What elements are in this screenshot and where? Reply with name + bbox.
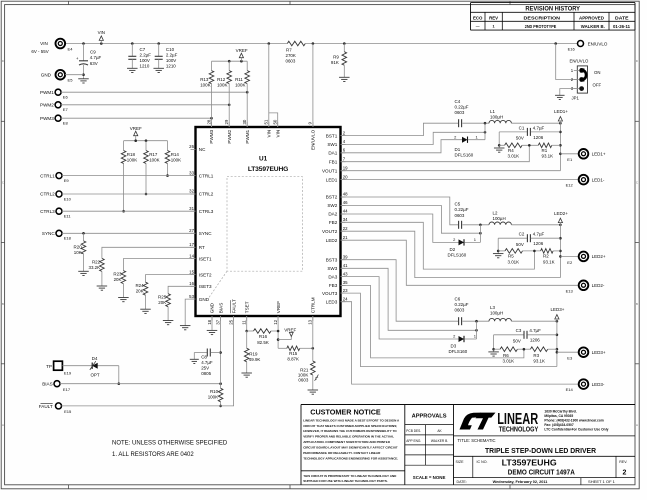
svg-text:1: 1 [493,25,495,29]
svg-text:REV: REV [489,15,499,20]
svg-text:20K: 20K [158,300,166,305]
svg-text:LED1-: LED1- [592,177,605,182]
svg-text:R25: R25 [158,295,167,300]
svg-text:29: 29 [224,119,229,124]
svg-text:TP: TP [46,364,52,369]
svg-text:D2: D2 [450,247,456,252]
svg-text:LTC Confidential-For Customer: LTC Confidential-For Customer Use Only [544,428,608,432]
svg-text:C3: C3 [516,328,522,333]
svg-text:EN/UVLO: EN/UVLO [588,41,608,46]
svg-text:C6: C6 [455,296,461,301]
svg-text:Fax: (408)434-0507: Fax: (408)434-0507 [544,423,573,427]
svg-text:3.01K: 3.01K [503,359,515,364]
svg-text:R20: R20 [74,245,83,250]
svg-text:100µH: 100µH [493,216,506,221]
svg-text:R4: R4 [508,148,514,153]
svg-text:11: 11 [242,320,247,325]
svg-text:10K: 10K [74,250,82,255]
svg-text:CTRL1: CTRL1 [199,173,214,178]
svg-text:R16: R16 [259,334,268,339]
svg-text:BIAS: BIAS [42,381,52,386]
svg-text:14: 14 [189,253,194,258]
svg-text:ISET3: ISET3 [199,284,212,289]
svg-text:4.7µF: 4.7µF [533,232,545,237]
svg-text:LT3597EUHG: LT3597EUHG [502,458,557,467]
svg-text:E7: E7 [63,107,69,112]
svg-text:E14: E14 [566,387,574,392]
svg-text:D1: D1 [455,147,461,152]
svg-text:R15: R15 [289,351,298,356]
svg-text:E15: E15 [64,409,72,414]
svg-text:THIS CIRCUIT IS PROPRIETARY TO: THIS CIRCUIT IS PROPRIETARY TO LINEAR TE… [303,474,397,478]
svg-text:SW2: SW2 [327,203,337,208]
svg-text:R9: R9 [333,54,339,59]
svg-text:D: D [636,59,638,63]
svg-text:A: A [2,423,4,427]
svg-text:E16: E16 [568,46,576,51]
svg-text:PWM3: PWM3 [209,129,214,143]
svg-text:33: 33 [189,170,194,175]
svg-text:2ND PROTOTYPE: 2ND PROTOTYPE [525,24,557,29]
svg-text:VOUT3: VOUT3 [322,291,338,296]
svg-text:IC NO.: IC NO. [477,460,488,464]
svg-text:CTRLM: CTRLM [311,297,316,313]
svg-text:OPT: OPT [90,373,99,378]
svg-text:VIN: VIN [275,130,280,138]
svg-text:51: 51 [264,119,269,124]
svg-text:1210: 1210 [166,64,176,69]
svg-text:—: — [476,25,480,29]
svg-text:20K: 20K [114,277,122,282]
svg-text:PWM3: PWM3 [40,116,54,121]
svg-text:ISET2: ISET2 [199,272,212,277]
svg-text:E19: E19 [64,370,72,375]
svg-text:30: 30 [242,119,247,124]
svg-text:REV.: REV. [619,460,627,464]
svg-text:SCALE = NONE: SCALE = NONE [413,475,446,480]
svg-text:R12: R12 [217,77,226,82]
svg-text:22: 22 [343,226,348,231]
svg-text:RT: RT [199,245,205,250]
svg-text:DATE:: DATE: [457,480,467,484]
svg-text:ECO: ECO [473,15,483,20]
svg-text:L1: L1 [490,109,495,114]
svg-text:VIN: VIN [98,30,105,35]
svg-text:FB2: FB2 [329,220,338,225]
svg-text:1206: 1206 [530,338,540,343]
svg-text:L2: L2 [493,211,498,216]
svg-text:R6: R6 [503,353,509,358]
svg-text:DA3: DA3 [328,274,337,279]
svg-text:23: 23 [343,288,348,293]
svg-text:35: 35 [343,280,348,285]
svg-text:TECHNOLOGY: TECHNOLOGY [499,425,539,434]
svg-text:13: 13 [308,319,313,324]
svg-text:DESCRIPTION: DESCRIPTION [524,15,561,20]
svg-text:HOWEVER, IT REMAINS THE CUSTOM: HOWEVER, IT REMAINS THE CUSTOMERS RESPON… [303,429,397,433]
svg-text:R7: R7 [286,48,292,53]
svg-text:01-26-11: 01-26-11 [613,24,631,29]
svg-text:3.01K: 3.01K [508,154,520,159]
svg-text:1210: 1210 [140,64,150,69]
svg-text:0.22µF: 0.22µF [455,207,469,212]
svg-text:BST1: BST1 [326,133,338,138]
svg-text:18: 18 [207,319,212,324]
svg-text:C10: C10 [166,47,175,52]
svg-text:0805: 0805 [201,371,211,376]
svg-text:48: 48 [343,192,348,197]
svg-text:PERFORMANCE OR RELIABILITY. C: PERFORMANCE OR RELIABILITY. CONTACT LINE… [303,451,381,455]
svg-text:BST2: BST2 [326,195,338,200]
svg-text:25: 25 [228,319,233,324]
svg-text:B: B [636,302,638,306]
svg-text:24: 24 [343,296,348,301]
svg-text:VREF: VREF [284,327,296,332]
svg-text:NC: NC [199,147,206,152]
svg-text:93.1K: 93.1K [533,359,545,364]
svg-text:LED3+: LED3+ [551,307,565,312]
svg-text:C7: C7 [140,47,146,52]
svg-text:100K: 100K [127,158,137,163]
svg-text:50V: 50V [513,338,521,343]
svg-text:32: 32 [189,189,194,194]
svg-text:B: B [2,302,4,306]
svg-text:LED2+: LED2+ [554,211,568,216]
svg-text:APP ENG.: APP ENG. [406,439,421,443]
svg-text:C5: C5 [455,202,461,207]
svg-text:GND: GND [210,302,215,313]
svg-text:PWM2: PWM2 [40,103,54,108]
svg-text:R22: R22 [92,259,101,264]
svg-text:Wednesday, February 02, 2011: Wednesday, February 02, 2011 [493,480,548,484]
svg-text:LT3597EUHG: LT3597EUHG [248,166,288,173]
svg-text:4.7µF: 4.7µF [201,360,213,365]
svg-text:82.5K: 82.5K [257,340,269,345]
svg-text:E13: E13 [566,288,574,293]
svg-text:43: 43 [343,271,348,276]
svg-text:D4: D4 [92,356,98,361]
svg-text:20: 20 [343,174,348,179]
svg-text:VREF: VREF [276,301,281,313]
svg-text:100µH: 100µH [490,115,503,120]
svg-text:GND: GND [199,297,210,302]
svg-text:21: 21 [343,235,348,240]
svg-text:0.22µF: 0.22µF [455,104,469,109]
svg-text:26: 26 [189,144,194,149]
svg-text:VIN: VIN [267,130,272,138]
svg-text:Milpitas, CA 95035: Milpitas, CA 95035 [544,414,573,418]
svg-text:49.9K: 49.9K [249,357,261,362]
svg-text:LED1+: LED1+ [592,152,606,157]
svg-text:R11: R11 [235,77,243,82]
svg-text:19: 19 [343,165,348,170]
svg-text:39: 39 [343,254,348,259]
svg-text:2: 2 [623,470,627,477]
svg-text:27: 27 [189,228,194,233]
svg-text:33.2K: 33.2K [88,265,100,270]
svg-text:0603: 0603 [455,110,465,115]
svg-text:R2: R2 [543,254,549,259]
svg-text:CTRL3: CTRL3 [40,209,55,214]
svg-text:PCB DES.: PCB DES. [406,429,421,433]
svg-text:EN/UVLO: EN/UVLO [569,59,589,64]
svg-text:DA2: DA2 [328,212,337,217]
svg-text:SW1: SW1 [327,142,337,147]
svg-text:VREF: VREF [130,126,142,131]
svg-text:E3: E3 [567,356,573,361]
svg-text:C8: C8 [201,354,207,359]
svg-text:C2: C2 [519,232,525,237]
svg-text:OFF: OFF [593,83,602,88]
svg-text:53: 53 [189,294,194,299]
svg-text:LINEAR TECHNOLOGY HAS MADE A B: LINEAR TECHNOLOGY HAS MADE A BEST EFFORT… [303,418,400,422]
svg-text:E18: E18 [64,236,72,241]
svg-text:100K: 100K [217,82,227,87]
svg-text:R14: R14 [171,152,180,157]
svg-text:0.22µF: 0.22µF [455,302,469,307]
svg-text:CTRL3: CTRL3 [199,209,214,214]
svg-text:R1: R1 [542,148,548,153]
svg-text:20K: 20K [136,289,144,294]
svg-text:A: A [636,423,638,427]
svg-text:Phone: (408)432-1900 www.li: Phone: (408)432-1900 www.linear.com [544,418,603,422]
svg-text:12: 12 [273,319,278,324]
svg-text:VIN: VIN [40,41,48,46]
svg-text:1206: 1206 [533,135,543,140]
svg-text:100µH: 100µH [490,311,503,316]
svg-text:DA1: DA1 [328,151,337,156]
svg-text:E11: E11 [64,214,72,219]
svg-text:LED1+: LED1+ [554,109,568,114]
svg-text:46: 46 [343,200,348,205]
svg-text:25V: 25V [201,366,209,371]
svg-text:37: 37 [215,319,220,324]
svg-text:NOTE: UNLESS OTHERWISE SPECIFI: NOTE: UNLESS OTHERWISE SPECIFIED [112,441,228,447]
svg-text:D3: D3 [451,343,457,348]
svg-text:VERIFY PROPER AND RELIABLE OPE: VERIFY PROPER AND RELIABLE OPERATION IN … [303,435,394,439]
svg-text:34: 34 [343,217,348,222]
svg-text:100V: 100V [140,58,150,63]
svg-text:DFLS160: DFLS160 [449,349,468,354]
svg-text:50V: 50V [516,242,524,247]
svg-text:270K: 270K [286,53,296,58]
svg-text:50: 50 [273,119,278,124]
svg-text:63V: 63V [90,61,98,66]
svg-text:LED3+: LED3+ [592,350,606,355]
svg-text:FAULT: FAULT [231,299,236,313]
svg-text:SYNC: SYNC [42,231,55,236]
svg-text:DFLS160: DFLS160 [448,252,467,257]
svg-text:SIZE: SIZE [456,460,465,464]
svg-text:31: 31 [189,206,194,211]
svg-text:0603: 0603 [455,308,465,313]
svg-text:E10: E10 [64,196,72,201]
svg-text:100K: 100K [200,82,210,87]
svg-text:R3: R3 [533,353,539,358]
svg-text:PWM1: PWM1 [40,90,54,95]
svg-text:CTRL2: CTRL2 [199,192,214,197]
svg-text:SW3: SW3 [327,266,337,271]
svg-text:4.7µF: 4.7µF [90,55,102,60]
svg-text:C1: C1 [519,125,525,130]
svg-text:15: 15 [189,269,194,274]
svg-text:EN/UVLO: EN/UVLO [311,129,316,150]
svg-text:17: 17 [189,242,194,247]
svg-text:0603: 0603 [455,213,465,218]
svg-text:R17: R17 [149,152,158,157]
svg-text:1206: 1206 [533,241,543,246]
svg-text:E8: E8 [63,121,69,126]
svg-text:TSET: TSET [244,301,249,313]
svg-text:100K: 100K [171,158,181,163]
svg-text:R13: R13 [200,77,209,82]
svg-text:CIRCUIT THAT MEETS CUSTOMER-SU: CIRCUIT THAT MEETS CUSTOMER-SUPPLIED SPE… [303,424,397,428]
svg-text:41: 41 [343,263,348,268]
svg-text:C: C [636,181,638,185]
svg-text:LED2: LED2 [326,238,338,243]
svg-text:E4: E4 [68,47,74,52]
svg-text:R5: R5 [508,254,514,259]
svg-text:FB3: FB3 [329,283,338,288]
svg-text:E12: E12 [566,183,574,188]
svg-text:FAULT: FAULT [39,404,53,409]
svg-text:LED1: LED1 [326,177,338,182]
svg-text:JP1: JP1 [572,96,580,101]
svg-text:4.7µF: 4.7µF [529,328,541,333]
svg-text:TRIPLE STEP-DOWN LED DRIVER: TRIPLE STEP-DOWN LED DRIVER [485,446,597,455]
svg-text:E17: E17 [63,387,71,392]
svg-text:WALKER B.: WALKER B. [431,439,448,443]
svg-text:0603: 0603 [286,59,296,64]
svg-text:C4: C4 [455,99,461,104]
svg-text:CUSTOMER NOTICE: CUSTOMER NOTICE [310,409,381,416]
svg-text:1630 McCarthy Blvd.: 1630 McCarthy Blvd. [544,409,576,413]
svg-text:APPROVED: APPROVED [579,15,605,20]
svg-text:SUPPLIED FOR USE WITH LINEAR T: SUPPLIED FOR USE WITH LINEAR TECHNOLOGY … [303,479,388,483]
svg-text:R10: R10 [210,389,219,394]
svg-text:TECHNOLOGY APPLICATIONS ENGINE: TECHNOLOGY APPLICATIONS ENGINEERING FOR … [303,456,398,460]
svg-text:CIRCUIT BOARD LAYOUT MAY SIGNI: CIRCUIT BOARD LAYOUT MAY SIGNIFICANTLY A… [303,446,398,450]
svg-text:E2: E2 [567,260,573,265]
svg-text:C9: C9 [90,50,96,55]
svg-text:100K: 100K [235,82,245,87]
svg-text:100V: 100V [166,58,176,63]
svg-text:DFLS160: DFLS160 [455,153,474,158]
svg-text:SYNC: SYNC [199,231,212,236]
svg-text:D: D [2,59,4,63]
svg-text:1. ALL RESISTORS ARE 0402: 1. ALL RESISTORS ARE 0402 [112,452,194,458]
svg-text:E5: E5 [68,78,74,83]
svg-text:LED3: LED3 [326,299,338,304]
svg-text:ISET1: ISET1 [199,256,212,261]
svg-text:R23: R23 [113,272,122,277]
svg-text:C: C [2,181,4,185]
svg-text:6V - 55V: 6V - 55V [31,49,48,54]
svg-text:DEMO CIRCUIT 1497A: DEMO CIRCUIT 1497A [508,468,576,477]
svg-text:TITLE: SCHEMATIC: TITLE: SCHEMATIC [458,438,496,443]
svg-text:E9: E9 [64,178,70,183]
svg-text:0603: 0603 [298,378,308,383]
svg-text:100K: 100K [149,158,159,163]
svg-text:GND: GND [41,72,52,77]
svg-text:FB1: FB1 [329,159,338,164]
svg-text:ON: ON [594,70,600,75]
svg-text:4.7µF: 4.7µF [533,125,545,130]
svg-text:LED2+: LED2+ [592,254,606,259]
svg-text:REVISION HISTORY: REVISION HISTORY [525,6,580,13]
svg-text:28: 28 [206,119,211,124]
svg-text:3.01K: 3.01K [508,259,520,264]
svg-text:100K: 100K [208,395,218,400]
svg-text:APPLICATION. COMPONENT SUBSTI: APPLICATION. COMPONENT SUBSTITUTION AND … [303,440,391,444]
svg-text:VREF: VREF [236,48,248,53]
svg-text:8.87K: 8.87K [287,357,299,362]
svg-text:PWM1: PWM1 [245,129,250,143]
svg-text:DATE: DATE [615,15,629,20]
svg-text:93.1K: 93.1K [542,154,554,159]
svg-text:PWM2: PWM2 [227,129,232,143]
svg-text:CTRL1: CTRL1 [40,173,55,178]
svg-text:BST3: BST3 [326,257,338,262]
svg-text:16: 16 [189,281,194,286]
svg-text:VOUT2: VOUT2 [322,229,338,234]
svg-text:E1: E1 [567,157,573,162]
svg-text:50V: 50V [516,136,524,141]
svg-text:E6: E6 [63,95,69,100]
svg-text:VOUT1: VOUT1 [322,168,338,173]
svg-text:WALKER B.: WALKER B. [581,24,605,29]
svg-text:44: 44 [343,209,348,214]
svg-text:2.2µF: 2.2µF [140,52,152,57]
svg-text:BIAS: BIAS [218,303,223,313]
svg-text:R19: R19 [249,352,258,357]
svg-text:L3: L3 [490,305,495,310]
svg-text:CTRL2: CTRL2 [40,192,55,197]
svg-text:LED2-: LED2- [592,283,605,288]
svg-text:LED3-: LED3- [592,382,605,387]
svg-text:U1: U1 [259,155,268,162]
svg-text:APPROVALS: APPROVALS [412,414,447,420]
svg-text:2.2µF: 2.2µF [166,52,178,57]
svg-text:R24: R24 [135,283,144,288]
svg-text:R18: R18 [127,152,136,157]
svg-text:93.1K: 93.1K [543,259,555,264]
svg-text:SHEET 1 OF 1: SHEET 1 OF 1 [588,479,616,484]
svg-text:91K: 91K [331,60,339,65]
